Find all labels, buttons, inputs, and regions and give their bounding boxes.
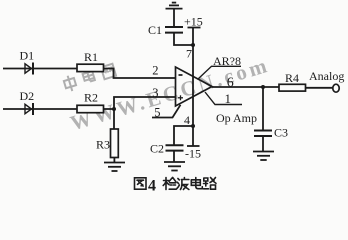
wire input row 2 [3, 108, 77, 110]
wire C1 to top ground [173, 10, 175, 28]
wire R2 to pin 3 [104, 97, 176, 109]
svg-text:R2: R2 [84, 91, 98, 105]
node top junction [191, 43, 195, 47]
svg-text:7: 7 [186, 47, 192, 61]
power rail vertical (pins 7/4) [192, 28, 194, 146]
svg-text:+15: +15 [184, 15, 203, 29]
-15 terminal bar [187, 145, 200, 147]
wire C2 branch [174, 126, 193, 145]
svg-text:R3: R3 [96, 138, 110, 152]
svg-text:5: 5 [154, 106, 160, 120]
svg-text:C1: C1 [148, 23, 162, 37]
wire C2 to ground [173, 151, 175, 162]
svg-text:R1: R1 [84, 50, 98, 64]
svg-text:3: 3 [152, 86, 158, 100]
+15 terminal bar [188, 27, 201, 29]
检 [163, 178, 176, 190]
图 [135, 178, 147, 189]
node bottom junction [191, 124, 195, 128]
svg-text:6: 6 [227, 75, 234, 90]
svg-text:D1: D1 [20, 49, 35, 63]
wire R4 to terminal [306, 87, 333, 89]
node junction R2/R3 [112, 107, 116, 111]
node Analog output terminal [333, 84, 339, 92]
svg-text:4: 4 [184, 113, 190, 127]
路 [204, 178, 217, 190]
diode D2 [25, 103, 33, 115]
resistor R3 [111, 129, 119, 158]
波 [177, 178, 189, 190]
svg-text:4: 4 [148, 178, 156, 195]
wire C3 to ground [262, 136, 264, 151]
resistor R4 [279, 84, 306, 91]
op-amp AR?8 [176, 67, 213, 106]
resistor R2 [77, 105, 104, 112]
svg-text:R4: R4 [285, 71, 299, 85]
wire C3 branch [262, 87, 264, 130]
wire junction to R3 [113, 109, 115, 129]
svg-text:C2: C2 [150, 142, 164, 156]
capacitor C2 [166, 145, 184, 150]
svg-text:2: 2 [152, 64, 158, 78]
wire input row 1 [3, 68, 77, 70]
op-amp non-inverting input marker [178, 97, 183, 99]
wire R3 to ground [113, 158, 115, 163]
node output junction [261, 85, 265, 89]
svg-text:Analog: Analog [309, 69, 344, 83]
pin 1 line [205, 92, 242, 105]
svg-text:-15: -15 [185, 147, 201, 161]
svg-text:1: 1 [225, 91, 232, 106]
caption 图4 检波电路 [135, 178, 217, 195]
op-amp inverting input marker [179, 74, 183, 76]
capacitor C3 [254, 131, 272, 137]
电 [191, 178, 202, 189]
svg-text:Op Amp: Op Amp [216, 111, 257, 125]
ground under C2 [164, 162, 185, 171]
AR?8 pointer line [198, 66, 242, 79]
watermark 中电网 [63, 62, 117, 92]
wire C1 branch [174, 33, 193, 45]
svg-text:D2: D2 [20, 89, 35, 103]
resistor R1 [77, 64, 104, 71]
ground under R3 [104, 163, 125, 172]
wire pin 5 [152, 105, 181, 118]
ground under C3 [253, 152, 274, 161]
wire output pin 6 [212, 86, 279, 88]
capacitor C1 [165, 27, 183, 33]
ground (top, inverted) [166, 3, 183, 9]
diode D1 [25, 63, 33, 75]
wire R1 to pin 2 [104, 69, 176, 79]
svg-text:C3: C3 [274, 126, 288, 140]
